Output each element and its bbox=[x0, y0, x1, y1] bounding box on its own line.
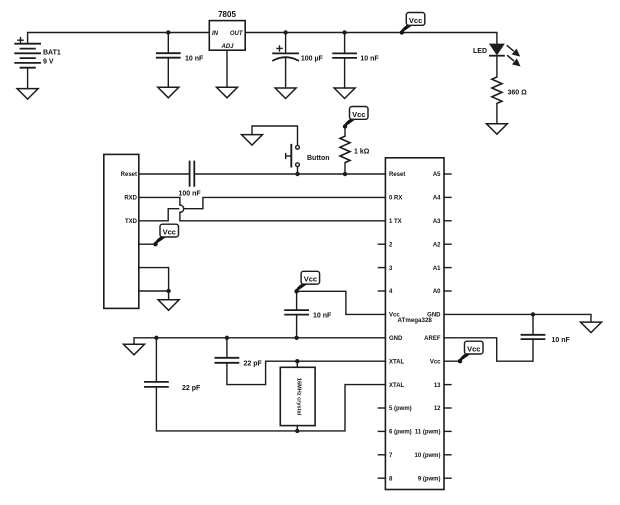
svg-text:13: 13 bbox=[434, 383, 441, 389]
svg-text:6 (pwm): 6 (pwm) bbox=[389, 430, 412, 436]
svg-text:GND: GND bbox=[389, 336, 403, 342]
svg-text:1 TX: 1 TX bbox=[389, 219, 402, 225]
svg-text:10 nF: 10 nF bbox=[185, 56, 204, 63]
svg-text:XTAL: XTAL bbox=[389, 359, 405, 365]
svg-text:XTAL: XTAL bbox=[389, 383, 405, 389]
svg-text:A4: A4 bbox=[433, 196, 441, 202]
svg-text:LED: LED bbox=[473, 48, 487, 55]
svg-text:16MHz crystal: 16MHz crystal bbox=[295, 378, 301, 416]
svg-text:A5: A5 bbox=[433, 172, 441, 178]
svg-text:0 RX: 0 RX bbox=[389, 196, 402, 202]
svg-text:100 nF: 100 nF bbox=[179, 191, 202, 198]
svg-text:BAT1: BAT1 bbox=[43, 50, 61, 57]
svg-text:Vcc: Vcc bbox=[430, 359, 441, 365]
svg-text:A3: A3 bbox=[433, 219, 441, 225]
svg-text:TXD: TXD bbox=[125, 219, 138, 225]
svg-text:100 µF: 100 µF bbox=[301, 56, 324, 63]
svg-text:10 nF: 10 nF bbox=[360, 56, 379, 63]
svg-text:9 (pwm): 9 (pwm) bbox=[418, 476, 441, 482]
svg-text:1 kΩ: 1 kΩ bbox=[354, 148, 370, 155]
svg-text:A2: A2 bbox=[433, 242, 441, 248]
svg-text:Button: Button bbox=[307, 155, 330, 162]
svg-text:5 (pwm): 5 (pwm) bbox=[389, 406, 412, 412]
svg-text:IN: IN bbox=[212, 31, 219, 37]
svg-text:7805: 7805 bbox=[218, 10, 236, 19]
svg-text:RXD: RXD bbox=[124, 196, 137, 202]
svg-text:Vcc: Vcc bbox=[389, 313, 400, 319]
svg-text:10 (pwm): 10 (pwm) bbox=[414, 453, 440, 459]
svg-text:OUT: OUT bbox=[230, 31, 244, 37]
svg-text:10 nF: 10 nF bbox=[552, 337, 571, 344]
svg-text:22 pF: 22 pF bbox=[182, 385, 201, 392]
svg-text:Reset: Reset bbox=[389, 172, 405, 178]
svg-text:AREF: AREF bbox=[424, 336, 441, 342]
svg-text:12: 12 bbox=[434, 406, 441, 412]
svg-text:9 V: 9 V bbox=[43, 59, 54, 66]
svg-text:22 pF: 22 pF bbox=[244, 361, 263, 368]
svg-text:A0: A0 bbox=[433, 289, 441, 295]
svg-text:360 Ω: 360 Ω bbox=[508, 90, 528, 97]
svg-text:11 (pwm): 11 (pwm) bbox=[415, 430, 441, 436]
svg-text:10 nF: 10 nF bbox=[313, 313, 332, 320]
svg-text:ADJ: ADJ bbox=[220, 44, 234, 50]
svg-text:A1: A1 bbox=[433, 266, 441, 272]
svg-text:GND: GND bbox=[427, 313, 441, 319]
svg-text:Reset: Reset bbox=[121, 172, 137, 178]
